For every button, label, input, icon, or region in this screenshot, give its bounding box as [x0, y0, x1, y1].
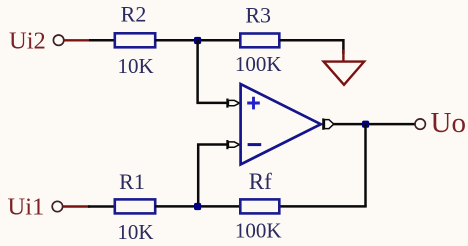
- resistor R1: [115, 199, 155, 213]
- resistor R3: [240, 34, 279, 48]
- junction node out: [362, 121, 369, 128]
- wire Ui1 to R1: [88, 205, 115, 208]
- op-amp U1 body: [241, 84, 321, 164]
- ground: [324, 50, 365, 85]
- junction node A: [194, 37, 201, 44]
- svg-text:10K: 10K: [117, 220, 153, 244]
- port terminal Ui1: [52, 201, 62, 211]
- pin arrow op-amp - input: [227, 140, 239, 149]
- wire feedback vertical: [364, 124, 367, 206]
- junction node B: [194, 203, 201, 210]
- wire Ui1 port stub: [63, 205, 90, 207]
- port terminal Ui2: [53, 35, 63, 45]
- svg-text:Rf: Rf: [249, 169, 272, 194]
- resistor Rf: [240, 199, 279, 213]
- wire R2 to R3 through node A: [155, 39, 241, 42]
- op-amp + marking: [247, 97, 260, 110]
- svg-text:10K: 10K: [118, 54, 154, 78]
- svg-text:R1: R1: [119, 169, 145, 194]
- svg-text:100K: 100K: [235, 219, 282, 243]
- op-amp - marking: [248, 143, 262, 146]
- svg-text:R2: R2: [121, 2, 147, 27]
- svg-text:R3: R3: [245, 3, 271, 28]
- wire Ui2 to R2: [89, 39, 115, 42]
- svg-text:Uo: Uo: [431, 107, 466, 139]
- wire node B to op-amp inverting input: [198, 143, 227, 207]
- svg-text:100K: 100K: [235, 52, 282, 76]
- svg-text:Ui1: Ui1: [8, 193, 45, 220]
- pin arrow op-amp output: [323, 118, 334, 129]
- wire R1 to Rf through node B: [155, 205, 241, 208]
- wire R3 to ground: [280, 40, 344, 54]
- wire op-amp output to Uo: [334, 123, 416, 126]
- wire feedback to Rf: [280, 205, 367, 208]
- pin arrow op-amp + input: [227, 99, 239, 108]
- wire node A to op-amp noninverting input: [196, 39, 227, 103]
- svg-text:Ui2: Ui2: [9, 28, 46, 55]
- port terminal Uo: [415, 119, 425, 129]
- wire Ui2 port stub: [64, 39, 91, 41]
- resistor R2: [115, 33, 155, 47]
